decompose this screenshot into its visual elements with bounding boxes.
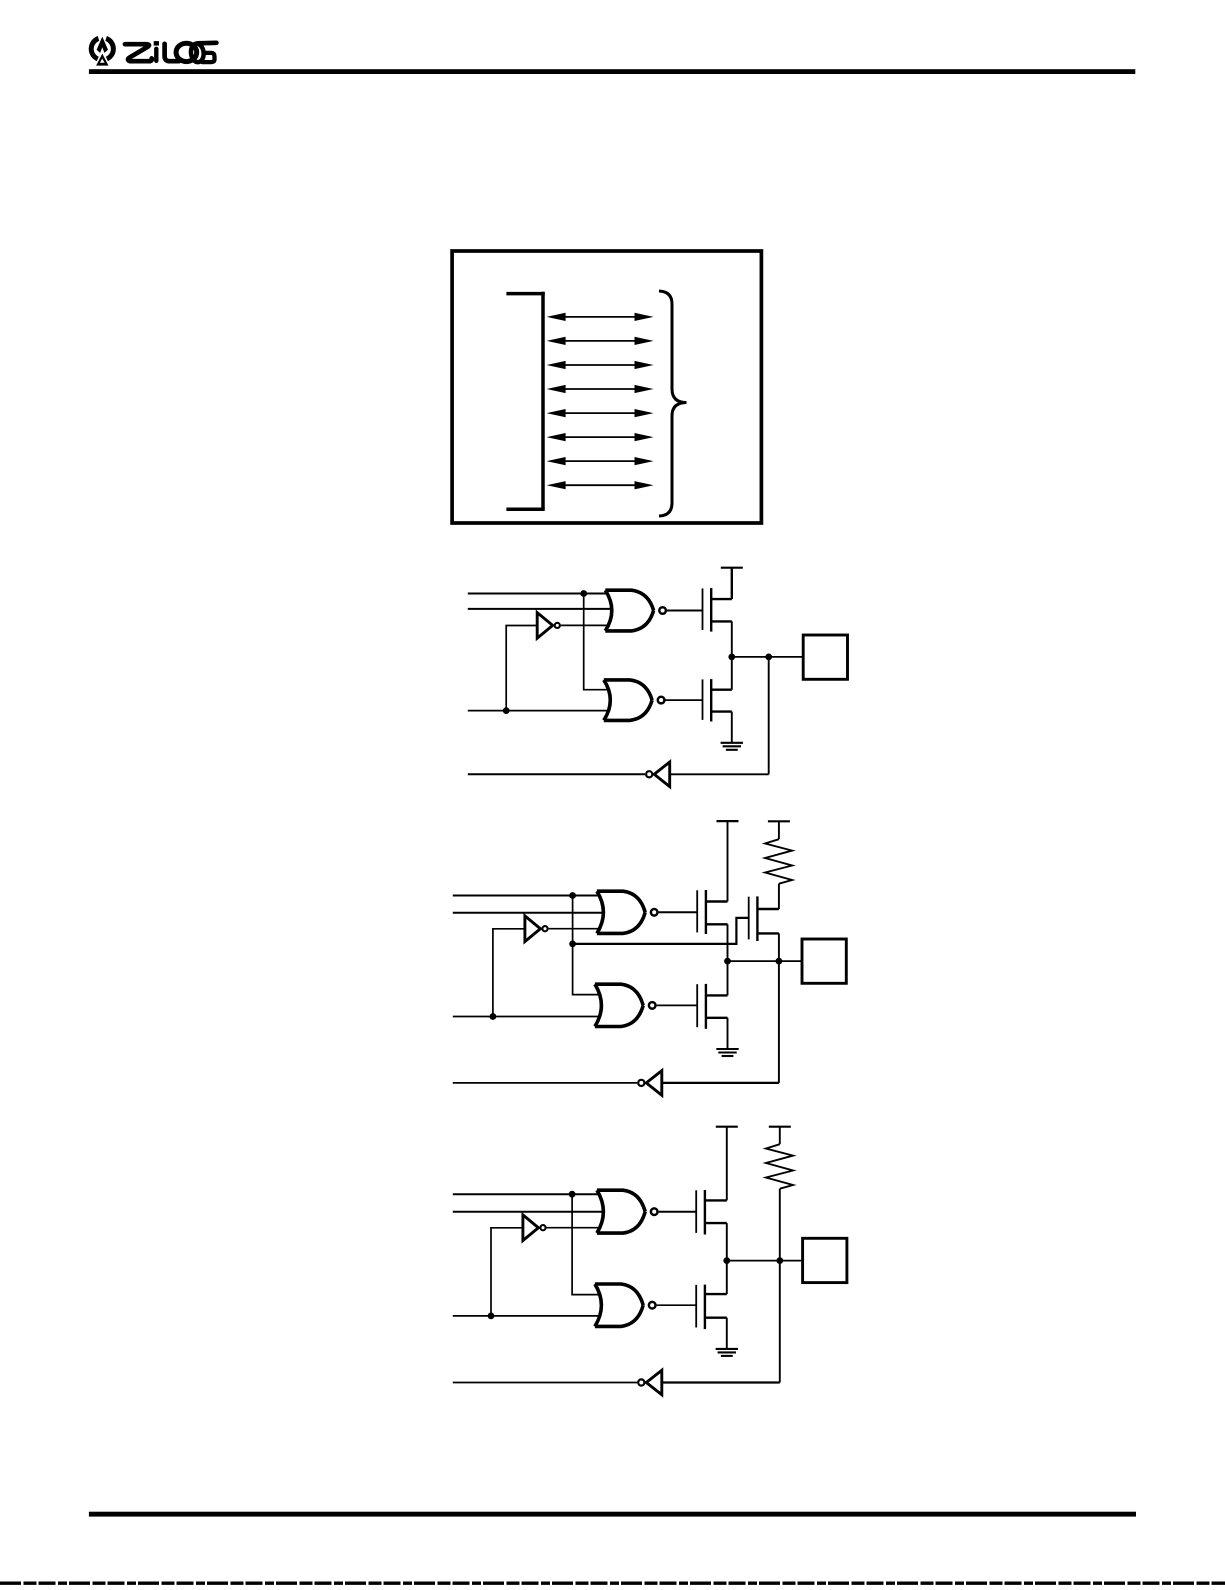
wire input line C (circuit 3) [453, 1315, 601, 1317]
wire feedback horizontal (circuit 3) [662, 1381, 780, 1383]
wire input line B (circuit 3) [453, 1211, 605, 1213]
ground symbol (circuit 1) [721, 712, 743, 750]
wire feedback long line (circuit 2) [453, 1082, 637, 1084]
VDD supply bar 1 (circuit 3) [716, 1126, 738, 1128]
wire feedback horizontal (circuit 2) [662, 1082, 779, 1084]
output node dot 2 (circuit 1) [765, 654, 772, 661]
wire Q2 source to output node (circuit 2) [778, 933, 780, 961]
wire buffer input tap (circuit 3) [491, 1228, 523, 1316]
NOR gate G2 (circuit 1) [604, 680, 665, 721]
output node dot 1 (circuit 3) [723, 1257, 730, 1264]
wire Q1 source to output node (circuit 2) [727, 924, 729, 995]
NOR gate G2 (circuit 2) [595, 984, 656, 1026]
P-channel transistor Q1 (circuit 2) [697, 890, 727, 934]
VDD supply bar 1 (circuit 2) [717, 820, 739, 822]
wire vertical to NOR2 (circuit 2) [573, 896, 602, 995]
wire input line A (circuit 1) [468, 593, 609, 595]
pull-up resistor R1 (circuit 3) [766, 1144, 793, 1189]
wire input line A (circuit 2) [453, 895, 601, 897]
bidirectional arrow 6 [547, 433, 654, 441]
wire G1 output to Q1 gate (circuit 1) [667, 610, 703, 612]
wire VDD to Q1 drain (circuit 2) [727, 821, 729, 901]
page-bottom perforation dashed line [0, 1581, 1225, 1584]
wire vertical to NOR2 (circuit 3) [572, 1194, 601, 1294]
bidirectional arrow 3 [547, 361, 654, 369]
node junction on line A (circuit 3) [569, 1191, 576, 1198]
NOR gate G2 (circuit 3) [595, 1284, 656, 1326]
P-channel transistor Q1 (circuit 1) [703, 588, 732, 632]
ground symbol (circuit 2) [716, 1018, 738, 1056]
wire resistor to Q2 drain (circuit 2) [778, 884, 780, 909]
wire resistor to output node (circuit 3) [779, 1189, 781, 1261]
feedback inverter U2 (circuit 3) [638, 1370, 662, 1395]
pull-up transistor Q2 (circuit 2) [749, 896, 779, 941]
header rule [89, 69, 1135, 74]
wire buffer input tap (circuit 2) [493, 929, 525, 1017]
N-channel transistor Q2 (circuit 3) [696, 1285, 727, 1330]
wire input line B (circuit 1) [468, 608, 614, 610]
wire output node to pad (circuit 1) [732, 656, 804, 658]
ground symbol (circuit 3) [716, 1318, 738, 1356]
Zilog logo emblem [89, 33, 116, 66]
wire VDD to resistor (circuit 2) [778, 821, 780, 839]
wire output node to pad (circuit 3) [727, 1260, 802, 1262]
P-channel transistor Q1 (circuit 3) [696, 1190, 727, 1235]
pad P3 (circuit 3) [803, 1238, 847, 1282]
wire input line C (circuit 2) [453, 1016, 601, 1018]
VDD supply bar 2 (circuit 3) [769, 1126, 791, 1128]
bidirectional arrow 2 [547, 337, 654, 345]
wire buffer output (circuit 2) [549, 928, 601, 930]
output node dot 2 (circuit 3) [776, 1257, 783, 1264]
wire feedback long line (circuit 3) [453, 1382, 637, 1384]
pad P1 (circuit 1) [803, 635, 847, 679]
VDD supply bar 2 (circuit 2) [768, 820, 790, 822]
NOR gate G1 (circuit 3) [597, 1190, 658, 1233]
bidirectional arrow 1 [547, 313, 654, 321]
output node dot 2 (circuit 2) [776, 958, 783, 965]
wire feedback vertical (circuit 3) [779, 1261, 781, 1383]
wire Q1 source to output node (circuit 3) [726, 1223, 728, 1294]
node junction on line A (circuit 2) [569, 892, 576, 899]
feedback inverter U2 (circuit 1) [646, 762, 670, 787]
NOR gate G1 (circuit 1) [605, 590, 666, 631]
wire buffer output (circuit 3) [547, 1227, 602, 1229]
output node dot 1 (circuit 2) [724, 958, 731, 965]
wire input line A (circuit 3) [453, 1193, 601, 1195]
wire feedback vertical (circuit 2) [778, 961, 780, 1083]
wire output node to pad (circuit 2) [728, 960, 803, 962]
node junction on line C (circuit 3) [488, 1313, 495, 1320]
wire VDD to resistor (circuit 3) [779, 1127, 781, 1145]
buffer inverter U1 (circuit 3) [523, 1215, 546, 1241]
wire G2 output to Q2 gate (circuit 3) [657, 1304, 697, 1306]
bidirectional arrow 4 [547, 385, 654, 393]
wire feedback vertical (circuit 1) [768, 657, 770, 774]
buffer inverter U1 (circuit 2) [525, 916, 548, 942]
buffer inverter U1 (circuit 1) [537, 613, 560, 639]
wire VDD to Q1 drain (circuit 1) [731, 568, 733, 599]
pull-up resistor R1 (circuit 2) [765, 839, 792, 884]
wire G2 output to Q3 gate (circuit 2) [657, 1004, 698, 1006]
wire G1 output to Q1 gate (circuit 3) [659, 1211, 697, 1213]
wire Q2 gate stepped line (circuit 2) [573, 918, 749, 944]
node junction for Q2 gate line (circuit 2) [569, 941, 576, 948]
wire buffer input tap (circuit 1) [506, 626, 537, 711]
wire buffer output (circuit 1) [561, 624, 610, 626]
wire input line B (circuit 2) [453, 912, 605, 914]
node junction on line A (circuit 1) [580, 590, 587, 597]
feedback inverter U2 (circuit 2) [638, 1071, 662, 1096]
pad P2 (circuit 2) [802, 939, 846, 983]
output node dot 1 (circuit 1) [728, 654, 735, 661]
wire feedback long line (circuit 1) [468, 773, 645, 775]
bidirectional arrow 8 [547, 481, 654, 489]
ZiLOG logotype [125, 41, 216, 63]
wire G1 output to Q1 gate (circuit 2) [659, 911, 698, 913]
wire vertical to NOR2 (circuit 1) [584, 594, 610, 690]
wire G2 output to Q2 gate (circuit 1) [666, 699, 703, 701]
NOR gate G1 (circuit 2) [597, 891, 658, 933]
bidirectional arrow 5 [547, 409, 654, 417]
port bus bracket [506, 292, 544, 510]
bidirectional arrow 7 [547, 457, 654, 465]
footer rule [89, 1512, 1136, 1517]
N-channel transistor Q2 (circuit 1) [703, 679, 732, 721]
wire input line C (circuit 1) [468, 710, 610, 712]
wire Q1 source to output node (circuit 1) [731, 621, 733, 689]
node junction on line C (circuit 2) [490, 1013, 497, 1020]
wire VDD to Q1 drain (circuit 3) [726, 1127, 728, 1201]
node junction on line C (circuit 1) [503, 707, 510, 714]
wire feedback horizontal (circuit 1) [670, 773, 769, 775]
VDD supply bar (circuit 1) [721, 567, 743, 569]
right brace [659, 291, 687, 516]
port block diagram box [452, 251, 761, 523]
N-channel transistor Q3 (circuit 2) [697, 984, 727, 1029]
